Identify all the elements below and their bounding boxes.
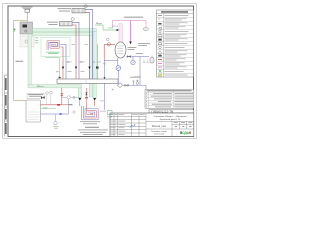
svg-text:Отопление «Июнь» — Вишневое: Отопление «Июнь» — Вишневое <box>153 116 187 118</box>
radiator R1 <box>58 5 88 13</box>
boiler K2 (floor standing) <box>27 93 44 98</box>
legend row symbols <box>158 15 162 76</box>
left stamp column cells <box>5 75 8 137</box>
DHW tank B1 <box>115 42 126 58</box>
svg-text:Тепловая схема: Тепловая схема <box>151 131 167 133</box>
project name text <box>153 116 187 121</box>
wire: drop to K2 return <box>68 99 70 114</box>
wire: K2 supply (red) <box>41 104 62 106</box>
wire: drain line to node TP <box>45 58 60 77</box>
Лит/Лист cells <box>174 122 193 127</box>
wire: return with filter diamond and vents <box>118 85 146 89</box>
chimney label text <box>22 6 33 9</box>
pump group box with pump P1 <box>20 36 34 47</box>
red drop <box>103 44 105 60</box>
valve: square valve on riser <box>96 66 98 68</box>
wire: mixing line with filter F1 <box>62 96 78 98</box>
svg-text:Монтаж. узел: Монтаж. узел <box>152 126 167 128</box>
legend row texts <box>165 15 189 75</box>
valve on gas line <box>13 28 15 32</box>
logo VODAN <box>180 131 192 135</box>
sheet outer edge <box>3 4 197 139</box>
node XB label <box>43 107 48 110</box>
vertical run 2 down to bottom band level <box>89 36 92 98</box>
svg-text:ХВ т-та: ХВ т-та <box>37 86 44 88</box>
wire: make-up water line <box>41 108 57 110</box>
tank piping with pump P2 <box>107 38 110 41</box>
radiator R2 <box>47 18 74 26</box>
svg-text:Крылатый дом 8, 19: Крылатый дом 8, 19 <box>160 118 181 121</box>
valves: coil2 feeder triangles <box>79 98 97 101</box>
blue return tank bottom <box>104 58 118 79</box>
sensor box <box>108 111 113 115</box>
wire: red drop below manifold with valve <box>86 88 88 111</box>
wire: heating supply/return bands (green) <box>33 28 97 98</box>
wires: supply/return risers <box>61 9 93 79</box>
wire: boiler down-run and bottom band (green) <box>28 34 82 98</box>
expansion tank MB <box>150 58 154 64</box>
floor heating coil TP2 <box>82 106 99 120</box>
svg-text:котельной: котельной <box>154 133 165 136</box>
blue cabinet box <box>73 111 75 113</box>
header <box>161 11 188 12</box>
vertical run 1 down to coil 2 right feeder <box>93 32 96 98</box>
valves: riser shut-off triangles <box>62 67 91 70</box>
riser diameter labels <box>68 62 101 72</box>
drawing inner frame <box>8 6 194 137</box>
manifold (distribution collector) <box>57 79 118 83</box>
floor heating coil TP1 <box>47 41 60 50</box>
boiler K1 (wall-hung) <box>20 22 33 34</box>
wire: K2 return (blue) with drain <box>41 113 69 115</box>
riser label text <box>62 23 72 26</box>
signature scribble <box>130 124 135 128</box>
node FV-1 label <box>16 60 24 63</box>
thermometers T1 T2 <box>46 92 49 95</box>
svg-text:T°: T° <box>158 19 160 22</box>
air vents on risers <box>67 61 95 63</box>
wire: blue stub below manifold <box>104 84 106 111</box>
chimney terminal <box>25 9 30 12</box>
wire: DHW riser (magenta) <box>124 16 143 19</box>
wire: flue/gas line <box>14 12 28 100</box>
floor-heating zone outline <box>41 38 70 57</box>
title block left grid texts <box>111 114 145 135</box>
